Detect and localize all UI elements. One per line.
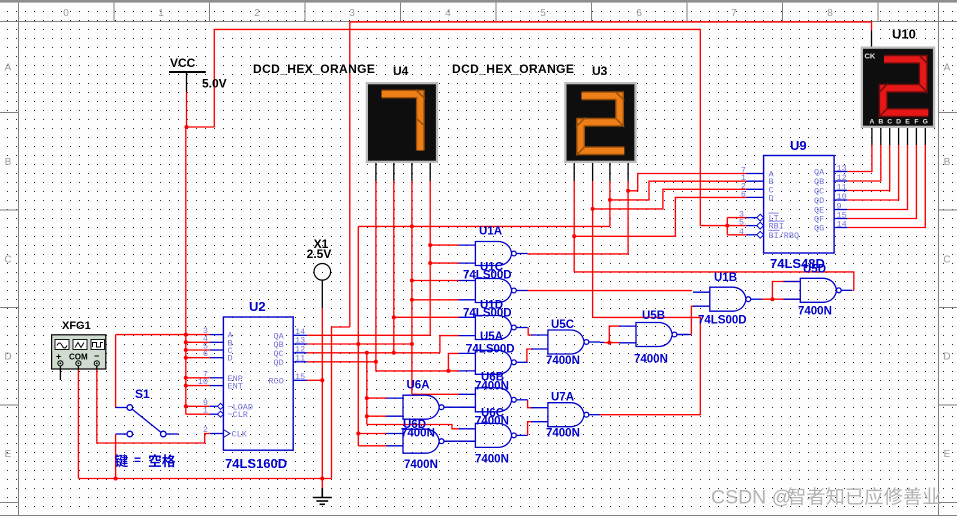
svg-text:CSDN @: CSDN @ [711,487,791,509]
wire bus to U2 pin ~LOAD [186,405,210,407]
pin U10 seg A lead [871,128,873,145]
svg-text:U3: U3 [592,64,608,78]
wire to U6D input 1 [358,433,386,435]
probe X1 2.5V [307,237,332,308]
wire U4 pin4 down to QA [429,181,431,335]
display U4 DCD_HEX_ORANGE showing 7 [366,82,439,163]
svg-text:DCD_HEX_ORANGE: DCD_HEX_ORANGE [452,62,574,76]
pin U10 CK lead [871,31,873,48]
svg-text:G: G [923,119,928,126]
svg-text:BI/RBQ: BI/RBQ [769,231,800,241]
junction U3.2 [591,207,595,211]
svg-text:7400N: 7400N [475,381,509,393]
wire bus to U2 pin ENT [186,385,210,387]
svg-text:VCC: VCC [170,56,196,70]
IC U2 74LS160D counter [198,299,307,471]
svg-text:S1: S1 [135,387,150,401]
wire U3 pin4 down [627,181,629,254]
svg-text:A: A [869,119,874,126]
wire U1D output to U5C.in1 [528,328,532,336]
wire U6D output to U6C.in2 [444,440,476,442]
svg-text:74LS00D: 74LS00D [463,270,512,282]
svg-text:6: 6 [636,8,642,19]
svg-text:D: D [228,354,233,364]
junction QD/U5A feed [446,369,450,373]
svg-text:=: = [134,453,141,467]
wire U3 pin1 down [573,181,575,272]
junction U5C out [607,341,611,345]
svg-text:7400N: 7400N [634,354,668,366]
pin U10 seg E lead [907,128,909,145]
wire U9 QB to U10 seg B [847,145,881,181]
svg-text:CK: CK [865,52,876,61]
svg-text:A: A [5,63,12,74]
svg-text:QC: QC [814,187,824,197]
svg-text:B: B [5,157,12,168]
wire U4.3 to U6B input 1 [412,393,459,395]
svg-text:COM: COM [69,353,88,362]
wire U7A output loop [593,317,701,414]
pin U10 seg D lead [898,128,900,145]
gate U7A (NAND) [531,403,600,427]
pin U3 lead x=574.2 [573,163,575,181]
wire to U9 A [628,174,746,191]
svg-text:11: 11 [837,183,847,193]
svg-text:74LS00D: 74LS00D [698,315,747,327]
junction U1B out [770,297,774,301]
wire to U1A input 2 [430,262,458,264]
wire bus to U2 pin A [186,334,210,336]
junction bus/A [184,333,188,337]
wire XFG1 minus to U2 CLK [97,369,210,443]
svg-text:10: 10 [198,377,208,387]
wire to U1A input 1 [430,244,458,246]
svg-text:U1B: U1B [714,272,737,284]
junction U7A line/U4.2 [392,315,396,319]
wire to U9 D [574,197,746,236]
junction QD/U4.1 [374,360,378,364]
svg-text:XFG1: XFG1 [62,320,91,332]
junction bus/~LOAD [184,404,188,408]
switch S1 (key = space) [116,405,179,437]
svg-text:U10: U10 [892,27,916,42]
wire QC row [307,352,440,354]
svg-text:7400N: 7400N [475,416,509,428]
junction U4.3 bus y=344.0 [410,342,414,346]
wire to U5A input 2 [448,370,458,372]
wire S1 left riser [115,335,117,408]
svg-text:7400N: 7400N [798,306,832,318]
junction rail/ground [320,477,324,481]
junction bus/B [184,340,188,344]
wire U5C out to U5B.in2 [604,342,620,344]
gate U1A (NAND) [459,242,528,266]
svg-text:4: 4 [445,8,451,19]
svg-text:D: D [943,352,950,363]
display U3 DCD_HEX_ORANGE showing 2 [564,82,637,163]
wire U1C output to U1B.in1 [528,290,692,292]
junction QC/U4.2 [392,351,396,355]
pin U4.1 lead [375,163,377,181]
gate U5A (NAND) [459,350,528,374]
svg-text:CLK: CLK [232,430,248,440]
wire U9 QF to U10 seg F [847,145,916,219]
wire bus to U2 pin B [186,341,210,343]
wire U1B out to U5D.in2 [762,298,800,300]
svg-text:8: 8 [827,8,833,19]
svg-text:4: 4 [739,227,744,237]
wire QC branch vertical [366,353,368,425]
junction rail/S1 [114,477,118,481]
junction bus/C [184,348,188,352]
svg-text:E: E [5,449,12,460]
wire bus to ~CLR pin [186,413,210,415]
wire U4.2 to U1D input 1 [394,316,459,318]
wire S1 bottom to ground rail [115,434,117,479]
svg-text:D: D [896,119,901,126]
svg-text:RCO: RCO [269,376,284,386]
svg-text:C: C [4,255,11,266]
svg-text:DCD_HEX_ORANGE: DCD_HEX_ORANGE [253,62,375,76]
svg-text:7400N: 7400N [546,428,580,440]
svg-text:74LS00D: 74LS00D [466,344,515,356]
gate U5B (NAND) [619,323,688,347]
svg-text:6: 6 [203,349,208,359]
wire to U9 C [593,189,747,209]
junction U6D.in1 [356,432,360,436]
wire to U1C input 1 [412,280,459,282]
wire U1A output to U3.4 net [528,253,629,255]
wire to U1C input 2 [412,299,459,301]
svg-text:U4: U4 [393,64,409,78]
wire rail up to CK vertical [332,327,350,479]
junction QC branch [365,351,369,355]
junction U4.3 bus y=299.8 [410,298,414,302]
svg-text:5: 5 [540,8,546,19]
svg-text:+: + [56,352,61,362]
wire U4 pin3 down [411,181,413,394]
wire to U6C input 1 [367,425,460,429]
pin U10 seg G lead [924,128,926,145]
junction U4.3 bus y=280.5 [410,279,414,283]
svg-text:14: 14 [837,220,847,230]
svg-text:2: 2 [254,8,260,19]
junction VCC node [185,125,189,129]
wire bus to U2 pin ENP [186,377,210,379]
svg-text:~CLR: ~CLR [228,410,248,420]
wire to U9 B [610,181,746,200]
svg-text:1: 1 [158,8,164,19]
instrument XFG1 function generator [52,320,106,380]
pin U10 seg C lead [889,128,891,145]
junction QB branch [356,342,360,346]
svg-text:QA: QA [814,168,825,178]
gate U6B (NAND) [459,388,528,412]
wire X1 probe down to rail [321,308,323,479]
wire to U6A input 1 [367,397,387,399]
svg-text:74LS00D: 74LS00D [463,308,512,320]
svg-text:74LS48D: 74LS48D [770,256,825,271]
wire S1 top to bus row A [116,334,186,336]
wire U5B out (blue) [676,334,691,336]
svg-text:74LS160D: 74LS160D [225,456,287,471]
wire to U9 ~BI [727,234,746,236]
gate U1B (NAND) [693,287,762,311]
svg-text:B: B [944,157,951,168]
svg-text:ENT: ENT [228,382,243,392]
wire QB branch vertical [357,226,359,445]
svg-text:7400N: 7400N [404,459,438,471]
wire U9 QE to U10 seg E [847,145,907,210]
wire U9 QG to U10 seg G [847,145,925,228]
top gray bar [0,0,957,3]
ground [313,488,332,504]
wire U3 pin3 down [609,181,611,226]
pin U3 lead x=609.9 [609,163,611,181]
svg-text:U9: U9 [790,138,807,153]
junction bus/D [184,356,188,360]
wire U6A output to U6B.in2 [444,406,476,408]
wire U4 pin2 down to QC [393,181,395,353]
wire U9 QC to U10 seg C [847,145,889,191]
gate reference labels [401,226,832,472]
svg-text:F: F [914,119,918,126]
gate U1D (NAND) [459,316,528,340]
svg-text:QD: QD [814,196,824,206]
svg-text:U7A: U7A [551,392,574,404]
wire U1B out to U5D.in1 [772,282,800,300]
wire U5C out riser to U5B.in1 [609,326,620,343]
wire QA row [307,334,430,336]
wire bus to U2 pin C [186,349,210,351]
svg-text:12: 12 [837,173,847,183]
wire to U9 ~RBI [700,225,746,227]
gate U5D (NAND) [783,278,852,302]
svg-text:QB: QB [814,177,824,187]
power VCC [169,56,227,92]
wire VCC to riser [187,126,215,128]
svg-text:0: 0 [63,8,69,19]
junction U3.4 [626,189,630,193]
wire QB row [307,343,412,345]
svg-text:C: C [943,255,950,266]
svg-text:10: 10 [837,192,847,202]
svg-text:6: 6 [741,189,746,199]
wire U4 pin1 down to QD [375,181,377,362]
svg-text:7400N: 7400N [546,355,580,367]
svg-text:A: A [944,63,951,74]
svg-text:U1A: U1A [479,226,502,238]
svg-text:D: D [4,352,11,363]
pin U4.4 lead [429,163,431,181]
svg-text:U5B: U5B [642,310,665,322]
wire U3 pin2 down [592,181,594,317]
junction bus/ENT [184,384,188,388]
svg-text:U5A: U5A [480,331,503,343]
wire QC jog to U1D input 2 [440,336,459,353]
svg-text:QD: QD [274,358,284,368]
svg-text:E: E [944,449,951,460]
svg-text:U5C: U5C [551,319,574,331]
junction U4.4/U1A.in1 [428,243,432,247]
svg-text:E: E [905,119,910,126]
svg-text:7400N: 7400N [475,454,509,466]
svg-text:2.5V: 2.5V [307,247,332,261]
svg-text:−: − [94,351,99,361]
svg-text:D: D [769,193,774,203]
wire VCC bus vertical x=186 [185,127,187,414]
junction RBI tie [725,224,729,228]
svg-text:2: 2 [203,425,208,435]
svg-text:7400N: 7400N [401,428,435,440]
svg-text:U6A: U6A [407,380,430,392]
wire ground rail [78,478,331,480]
junction U4.4/U1A.in2 [428,261,432,265]
pin U3 lead x=628.1 [627,163,629,181]
junction bus/ENP [184,376,188,380]
pin U10 seg B lead [880,128,882,145]
svg-text:7: 7 [731,8,737,19]
pin U4.2 lead [393,163,395,181]
wire U9 QD to U10 seg D [847,145,898,200]
IC U9 74LS48D BCD to 7-seg decoder [739,138,847,271]
wire U9 QA to U10 seg A [847,145,872,172]
gate U6A (NAND) [386,395,455,419]
svg-text:U2: U2 [249,299,266,314]
wire VCC rail: up from VCC node, across top, down to U9 RBI [214,29,700,225]
svg-text:5.0V: 5.0V [202,77,227,91]
svg-text:QG: QG [814,224,824,234]
svg-text:3: 3 [349,8,355,19]
wire to U9 ~LT [727,217,746,219]
wire ground stem red [321,479,323,489]
wire to U6A input 2 [367,415,387,417]
junction U4.3 bus y=226.4 [410,224,414,228]
wire QD row [307,361,376,363]
pin U4.3 lead [411,163,413,181]
display U10 seven-segment showing 2 [861,27,936,129]
wire U5C out link (blue) [600,341,604,343]
svg-text:1: 1 [203,406,208,416]
gate U1C (NAND) [459,279,528,303]
gate U6D (NAND) [386,429,455,453]
junction U3.1 [572,234,576,238]
wire RCO row [307,379,322,381]
wire long row y=226 net [358,225,610,227]
pin U3 lead x=592.6 [592,163,594,181]
wire U5A output to U5C.in2 [527,349,533,362]
pin U10 seg F lead [915,128,917,145]
svg-text:15: 15 [295,372,305,382]
wire VCC stem red [186,92,188,127]
junction U3.3 [608,198,612,202]
svg-text:C: C [887,119,892,126]
svg-text:B: B [878,119,883,126]
svg-text:11: 11 [295,353,305,363]
wire U5D output long loop [574,272,854,290]
wire CK net: vertical x=350 up, top rail to U10 CK [350,22,872,327]
wire to U6D input 2 [358,445,386,447]
wire U5B out to U1B.in2 [691,306,694,334]
wire to U5A input 1 [448,353,458,371]
junction U6A.in1 [365,396,369,400]
wire bus to U2 pin D [186,357,210,359]
gate U5C (NAND) [531,330,600,354]
wire XFG1 COM down [77,369,79,479]
wire QD jog [376,362,449,371]
svg-text:13: 13 [837,164,847,174]
wire LT-BI tie [726,218,728,235]
junction U6A.in2 [365,414,369,418]
junction X1/RCO [320,378,324,382]
wire U6C output to U7A.in2 [528,422,533,436]
gate U6C (NAND) [459,423,528,447]
wire U6B output to U7A.in1 [528,400,533,408]
label key = space [115,453,176,467]
